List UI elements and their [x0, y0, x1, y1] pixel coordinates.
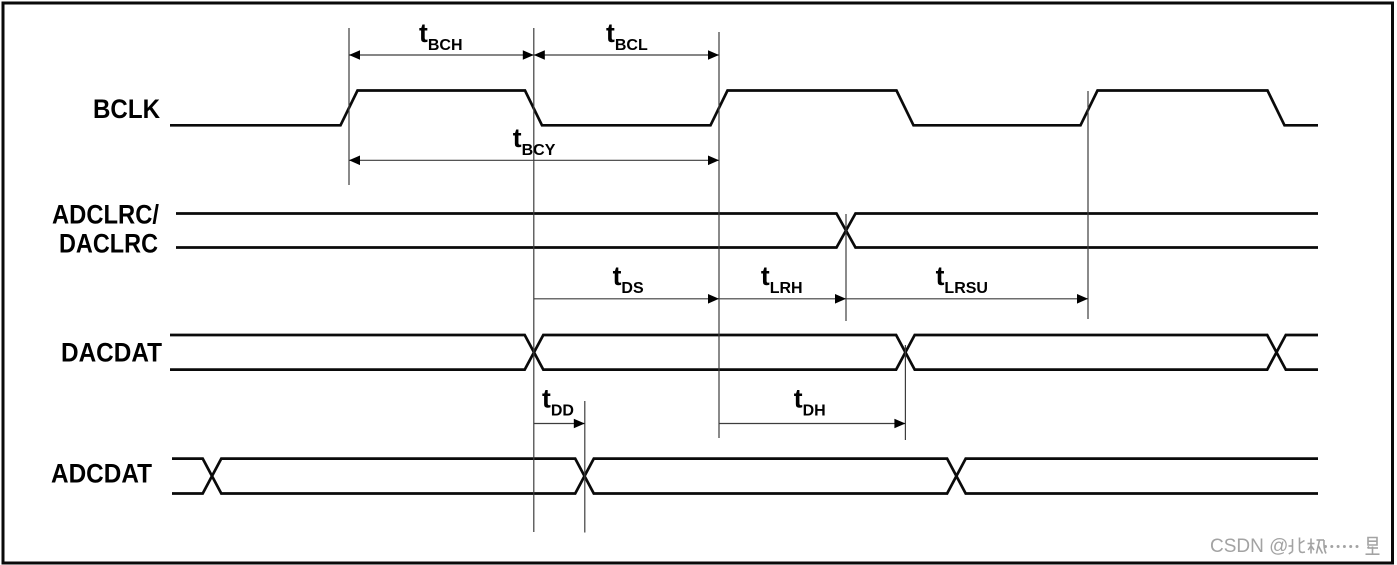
ADCLRC/DACLRC bus lower line with transition	[176, 214, 1318, 248]
svg-text:CSDN @: CSDN @	[1210, 536, 1288, 557]
ADCDAT bus upper line with transitions	[172, 459, 1318, 494]
svg-text:DACLRC: DACLRC	[59, 228, 158, 258]
watermark glyph Bei	[1289, 538, 1306, 555]
dimension arrow tLRSU	[846, 294, 1088, 304]
svg-text:ADCDAT: ADCDAT	[51, 459, 152, 489]
DACDAT bus upper line with transitions	[170, 335, 1318, 370]
vertical reference line at ADCDAT transition x=584.8	[584, 401, 586, 533]
dimension arrow tBCY	[349, 156, 719, 166]
watermark ellipsis	[1324, 545, 1359, 548]
ADCLRC/DACLRC bus upper line with transition	[176, 214, 1318, 248]
vertical reference line at BCLK second rising edge x=719	[718, 32, 720, 438]
vertical reference line at LRC transition x=846	[845, 214, 847, 321]
BCLK clock waveform	[170, 91, 1318, 126]
DACDAT bus lower line with transitions	[170, 335, 1318, 370]
vertical reference line at BCLK rising edge x=349	[348, 28, 350, 185]
watermark glyph Xing	[1366, 538, 1380, 555]
watermark glyph Ji	[1308, 539, 1327, 554]
dimension arrow tDH	[719, 419, 905, 429]
dimension arrow tBCH	[349, 50, 534, 60]
dimension arrow tDD	[534, 419, 585, 429]
ADCDAT bus lower line with transitions	[172, 459, 1318, 494]
dimension arrow tDS	[534, 294, 719, 304]
dimension arrow tBCL	[534, 50, 719, 60]
dimension arrow tLRH	[719, 294, 846, 304]
svg-text:DACDAT: DACDAT	[61, 338, 162, 368]
vertical reference line at BCLK third rising edge x=1088	[1087, 91, 1089, 319]
svg-text:ADCLRC/: ADCLRC/	[52, 199, 160, 229]
svg-text:BCLK: BCLK	[93, 94, 160, 124]
vertical reference line at BCLK falling edge x=533.8	[533, 28, 535, 532]
vertical reference line at DACDAT transition x=905.4	[904, 345, 906, 440]
